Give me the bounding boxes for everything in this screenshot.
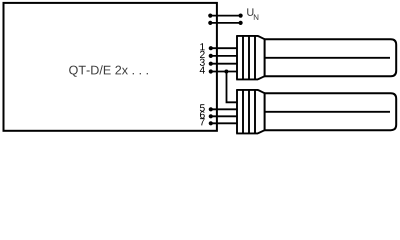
node UN line2 left xyxy=(208,21,212,25)
lamp EL1 neck xyxy=(258,36,265,80)
node UN line1 right xyxy=(239,14,243,18)
wire pin5 xyxy=(209,108,238,110)
node pin4 xyxy=(209,69,213,73)
label QT-D/E 2x... xyxy=(69,65,148,77)
node pin3 xyxy=(209,62,213,66)
wire UN line2 xyxy=(210,22,240,24)
node pin6 xyxy=(209,114,213,118)
wire pin7 xyxy=(209,122,238,124)
lamp EL1 tube mid line xyxy=(266,57,391,59)
lamp EL2 base bars xyxy=(236,90,258,133)
label pin7 xyxy=(200,118,205,125)
label pin2 xyxy=(200,51,205,58)
node pin7 xyxy=(209,121,213,125)
wire pin4 xyxy=(209,71,238,73)
lamp EL2 tube mid line xyxy=(266,111,391,113)
lamp EL2 tube xyxy=(265,93,397,130)
wire pin3 xyxy=(209,63,238,65)
node pin1 xyxy=(209,46,213,50)
node pin4 branch junction xyxy=(224,70,228,74)
lamp EL1 base bars xyxy=(236,36,258,80)
wire pin1 xyxy=(209,47,238,49)
label pin5 xyxy=(200,104,205,111)
node UN line2 right xyxy=(239,21,243,25)
wire pin2 xyxy=(209,55,238,57)
wire pin4 branch to lamp2 xyxy=(227,72,238,103)
wire UN line1 xyxy=(210,15,240,17)
wire pin6 xyxy=(209,115,238,117)
ballast box QT-D/E 2x xyxy=(4,3,217,131)
node pin5 xyxy=(209,107,213,111)
label UN xyxy=(247,8,258,20)
label pin6 xyxy=(200,111,205,118)
lamp EL2 neck xyxy=(258,90,265,133)
node UN line1 left xyxy=(208,14,212,18)
label pin1 xyxy=(200,43,204,50)
label pin3 xyxy=(200,59,205,66)
label pin4 xyxy=(200,67,205,74)
node pin2 xyxy=(209,54,213,58)
lamp EL1 tube xyxy=(265,39,397,76)
